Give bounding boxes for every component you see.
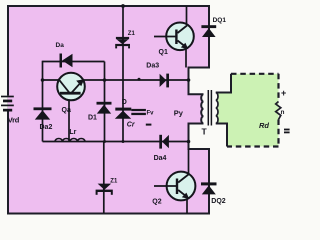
svg-text:Py: Py — [174, 109, 184, 118]
green box solid left/tab edges — [216, 124, 227, 147]
green box dashed top edge — [231, 73, 279, 75]
diode Da (points left) — [60, 54, 63, 68]
zener Z1 bottom — [98, 184, 112, 190]
minus mark below Cr — [146, 124, 152, 126]
junction Qa base / Da2 wire — [41, 78, 45, 82]
resistor Rd zigzag on right edge — [276, 102, 281, 120]
svg-text:Qa: Qa — [62, 107, 71, 114]
diode Da3 (points right) — [160, 74, 167, 87]
svg-text:Fv: Fv — [147, 110, 155, 116]
junction collector rail / Q1 emitter node — [187, 78, 191, 82]
svg-text:Vrd: Vrd — [8, 115, 20, 124]
diode DQ2 (points up) — [201, 182, 217, 185]
green box dashed right edge lower — [277, 120, 279, 147]
svg-text:Rd: Rd — [259, 121, 269, 130]
green load box fill with transformer secondary — [216, 74, 279, 147]
transformer T secondary winding — [216, 93, 218, 124]
svg-text:DQ2: DQ2 — [211, 198, 226, 205]
svg-text:n: n — [281, 109, 285, 116]
svg-text:D1: D1 — [88, 114, 97, 121]
svg-text:DQ1: DQ1 — [213, 17, 227, 24]
wire: left vertical through Da2 — [42, 61, 44, 142]
green box dashed bottom edge — [227, 145, 279, 147]
transistor Qa — [57, 73, 85, 101]
diode DQ1 (points up) — [201, 25, 216, 28]
junction collector rail / Cr — [138, 78, 141, 81]
wire: vertical x=123 from top rail through Z1 and D — [122, 6, 124, 142]
wire: Qa loop top — [43, 61, 105, 63]
svg-text:Da4: Da4 — [154, 155, 167, 162]
svg-text:Lr: Lr — [69, 129, 76, 136]
svg-text:+: + — [281, 88, 286, 98]
svg-text:D: D — [122, 99, 127, 106]
svg-text:Z1: Z1 — [128, 31, 136, 37]
svg-text:Q2: Q2 — [152, 199, 161, 206]
svg-text:Da3: Da3 — [146, 63, 159, 70]
junction top rail / Z1 wire — [121, 4, 125, 8]
diode D (points up) — [115, 108, 131, 111]
svg-text:Z1: Z1 — [110, 179, 118, 185]
junction lower rail / Q2 collector node — [187, 140, 191, 144]
transistor Q1 — [166, 23, 194, 51]
svg-text:Q1: Q1 — [159, 49, 168, 56]
wire: Qa base — [43, 79, 67, 81]
pink converter box outline (borders double as wires) with transformer primary — [8, 6, 209, 214]
svg-text:T: T — [202, 127, 208, 137]
green box dashed right edge upper — [277, 74, 279, 102]
wire: rail y=141.5 with Lr and Da4 — [43, 141, 189, 143]
junction lower rail / D wire — [122, 140, 125, 143]
transistor Q2 — [167, 172, 196, 201]
junction lower rail / D1 wire — [103, 140, 106, 143]
junction collector rail / D1 wire — [103, 78, 107, 82]
zener Z1 top — [116, 37, 129, 39]
diode Da2 (points up) — [34, 107, 52, 110]
battery Vrd (erase border behind plates) — [5, 96, 8, 111]
wire: Qa emitter drop — [68, 94, 70, 142]
wire: vertical x=104.5 through D1 — [104, 62, 106, 142]
diode Da4 (points left) — [159, 135, 162, 149]
svg-text:Da2: Da2 — [40, 124, 53, 131]
inductor Lr — [55, 139, 85, 142]
diode D1 (points up) — [97, 102, 112, 105]
wire: Z1 bottom vertical — [103, 142, 105, 214]
transformer T core lines — [207, 90, 209, 126]
wire: collector rail y=80 — [83, 79, 189, 81]
svg-text:Da: Da — [56, 42, 65, 49]
minus terminal (double dash) — [284, 129, 290, 131]
svg-text:Cr: Cr — [127, 122, 136, 129]
capacitor Cr — [131, 109, 146, 111]
